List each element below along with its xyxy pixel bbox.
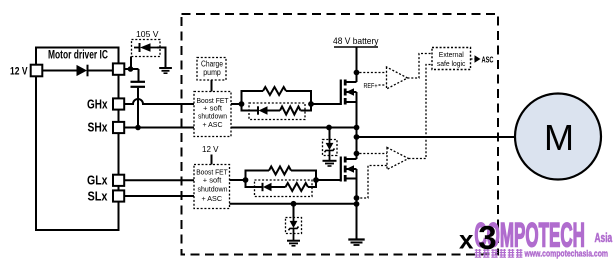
- ground clamp: [159, 67, 172, 69]
- svg-text:GHx: GHx: [87, 98, 108, 112]
- svg-text:ASC: ASC: [482, 55, 494, 64]
- svg-text:shutdown: shutdown: [198, 187, 228, 194]
- capacitor C1 bootstrap: [131, 81, 146, 83]
- svg-text:12 V: 12 V: [202, 144, 219, 154]
- pin VB top: [113, 63, 124, 74]
- wire gate1 bottom branch right: [301, 104, 312, 111]
- node junction on VB wire: [128, 66, 134, 72]
- resistor R1: [263, 87, 286, 95]
- wire junction up to 105V clamp: [130, 57, 132, 70]
- svg-text:48 V battery: 48 V battery: [333, 36, 379, 47]
- wire comparator 2 output to safe logic: [409, 65, 433, 159]
- svg-text:3: 3: [478, 219, 496, 256]
- arrow ASC: [475, 55, 481, 62]
- svg-text:Boost FET: Boost FET: [197, 98, 230, 105]
- svg-text:External: External: [439, 50, 464, 59]
- wire gate2 top branch left: [246, 171, 270, 181]
- zener diode D6: [293, 218, 295, 222]
- diode D3: [257, 106, 259, 114]
- ground main: [348, 238, 364, 240]
- svg-text:shutdown: shutdown: [198, 113, 227, 120]
- svg-text:+ soft: + soft: [203, 177, 222, 184]
- wire gate2 bottom branch right: [308, 180, 316, 187]
- pin GLx: [113, 175, 124, 186]
- pin SLx: [113, 190, 124, 201]
- node phase SHx: [354, 125, 360, 131]
- svg-text:Charge: Charge: [201, 59, 223, 68]
- wire safe logic to ASC: [471, 58, 476, 60]
- boost FET driver box 2: [194, 165, 230, 209]
- wire gate2 to Q2 gate: [316, 179, 341, 181]
- op-amp U2 comparator high: [387, 67, 408, 89]
- wire down to bootstrap cap: [138, 69, 140, 81]
- wire REF to comparator 1: [379, 84, 387, 86]
- svg-text:Boost FET: Boost FET: [196, 169, 228, 176]
- svg-text:GLx: GLx: [87, 174, 108, 188]
- node source SLx sense: [354, 201, 360, 207]
- svg-text:+ ASC: + ASC: [202, 196, 223, 203]
- svg-text:www.compotechasia.com: www.compotechasia.com: [524, 249, 608, 260]
- node sense zener tap: [291, 201, 297, 207]
- wire diode to R4: [272, 186, 286, 188]
- wire SLx to boost box 2: [124, 195, 194, 197]
- node gate network 1 left: [239, 101, 245, 107]
- svg-text:SHx: SHx: [88, 121, 108, 135]
- node gate network 1 right: [308, 101, 314, 107]
- wire gate2 bottom branch left: [246, 180, 263, 187]
- ground zener 1: [323, 160, 337, 162]
- svg-text:12 V: 12 V: [10, 66, 28, 78]
- pin SHx: [113, 122, 124, 133]
- wire comparator 1 output to safe logic: [408, 54, 433, 79]
- transistor Q2 low-side MOSFET: [341, 157, 357, 182]
- pin 12V: [31, 65, 43, 77]
- zener clamp box 1: [323, 140, 338, 156]
- zener diode D5: [329, 140, 331, 144]
- outer dashed boundary box: [182, 14, 499, 255]
- wire boost2 gate out: [230, 179, 246, 181]
- wire SHx from boost box to phase: [231, 127, 357, 129]
- wire gate2 top branch right: [291, 171, 316, 181]
- wire gate1 to Q1 gate: [311, 103, 341, 105]
- dashed soft-shutdown box 1: [249, 103, 305, 120]
- node gate network 2 right: [313, 177, 319, 183]
- svg-text:Asia: Asia: [595, 231, 613, 245]
- wire source tap to comparator 2: [357, 166, 388, 199]
- dashed soft-shutdown box 2: [255, 180, 313, 197]
- svg-text:REF+: REF+: [364, 81, 378, 90]
- node phase motor: [354, 134, 360, 140]
- wire GHx with hop over cap wire: [124, 99, 194, 104]
- node source comparator tap: [354, 195, 360, 201]
- wire SLx sense line: [230, 203, 357, 205]
- wire Q2 source to ground: [356, 169, 358, 239]
- wire Q1 source phase vertical: [356, 92, 358, 159]
- wire diode to VB pin: [89, 70, 114, 72]
- external safe logic box: [432, 48, 471, 70]
- wire cap to SHx node: [137, 88, 139, 128]
- wire 12V to diode: [42, 70, 76, 72]
- watermark chinese characters: [475, 249, 523, 257]
- wire to zener clamp 2: [293, 204, 295, 218]
- zener clamp box 2: [286, 218, 302, 234]
- svg-text:safe logic: safe logic: [437, 59, 466, 68]
- wire to zener clamp 1: [329, 128, 331, 140]
- wire GLx to boost box 2: [124, 179, 194, 181]
- wire clamp to ground: [157, 48, 166, 68]
- wire phase to motor: [357, 136, 516, 138]
- svg-text:+ soft: + soft: [203, 105, 222, 112]
- svg-text:105 V: 105 V: [136, 29, 159, 39]
- resistor R3: [269, 167, 291, 175]
- diode D4: [262, 183, 264, 191]
- node phase comparator tap: [354, 151, 360, 157]
- wire diode to R2: [268, 110, 281, 112]
- transistor Q1 high-side MOSFET: [341, 80, 357, 106]
- wire 12V to boost box 2: [211, 155, 213, 165]
- svg-text:SLx: SLx: [88, 190, 108, 204]
- resistor R2: [280, 107, 301, 115]
- diode D2 clamp: [134, 47, 139, 49]
- diode D1: [77, 65, 88, 76]
- ground zener 2: [287, 240, 300, 242]
- wire gate1 top branch left: [242, 91, 264, 104]
- svg-text:Motor driver IC: Motor driver IC: [48, 50, 108, 62]
- svg-text:+ ASC: + ASC: [203, 122, 223, 129]
- wire charge pump to boost box 1: [211, 80, 213, 92]
- motor M1 circle: [515, 94, 601, 180]
- motor driver IC U1 box: [36, 48, 119, 231]
- node gate network 2 left: [243, 177, 249, 183]
- wire battery to Q1 drain: [356, 47, 358, 82]
- charge pump box: [197, 58, 226, 81]
- pin GHx: [113, 98, 124, 109]
- op-amp U3 comparator low: [387, 148, 409, 170]
- battery rail line: [334, 46, 378, 48]
- wire gate1 bottom branch left: [242, 104, 259, 111]
- wire phase tap to comparator 2: [360, 153, 388, 155]
- svg-text:x: x: [459, 225, 474, 255]
- svg-text:pump: pump: [203, 68, 221, 77]
- wire drain sense to comparator 1: [360, 72, 387, 74]
- resistor R4: [286, 183, 309, 191]
- wire SHx to boost box: [124, 127, 194, 129]
- wire boost1 gate out: [231, 103, 242, 105]
- boost FET driver box 1: [194, 92, 231, 137]
- wire gate1 top branch right: [286, 91, 311, 104]
- node drain sense: [354, 70, 360, 76]
- node SHx zener tap: [326, 125, 332, 131]
- node cap to SHx junction: [135, 125, 141, 131]
- wire VB pin to cap corner: [124, 68, 138, 70]
- svg-text:M: M: [544, 117, 574, 158]
